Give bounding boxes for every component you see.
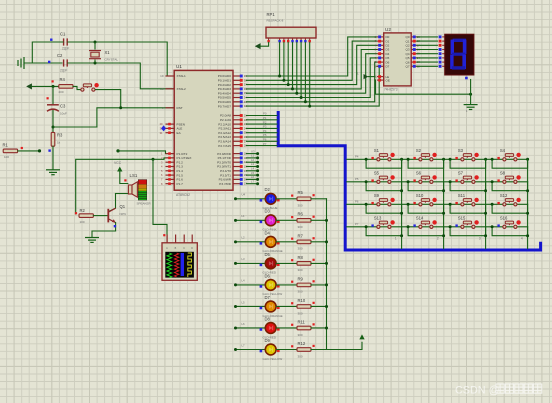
wire R5 to collector line <box>311 198 327 200</box>
pushbutton S10 <box>413 193 436 206</box>
svg-text:Q7: Q7 <box>405 65 409 69</box>
ground below display <box>464 105 478 110</box>
wire segment net 6 <box>417 61 437 63</box>
pushbutton S5 <box>371 171 394 184</box>
svg-text:S16: S16 <box>500 216 508 221</box>
wire net P0.3 <box>246 50 376 89</box>
resistor R3 <box>51 132 63 146</box>
wire display common down to ground <box>470 80 472 105</box>
wire net P2.4 <box>246 132 277 134</box>
microcontroller U1 AT89C52 <box>174 64 233 197</box>
svg-text:4: 4 <box>521 237 523 241</box>
svg-text:CRYSTAL: CRYSTAL <box>105 58 119 62</box>
pushbutton S16 <box>497 216 520 229</box>
svg-text:S9: S9 <box>374 193 380 198</box>
svg-text:D6: D6 <box>265 273 271 278</box>
wire net U4 to LED D2 <box>236 198 266 200</box>
svg-text:XTAL2: XTAL2 <box>177 87 187 91</box>
wire P1.1 net long run <box>76 158 174 214</box>
svg-text:C2: C2 <box>57 53 63 58</box>
latch U2 74HC573 <box>374 27 420 92</box>
svg-text:1: 1 <box>395 237 397 241</box>
svg-text:300: 300 <box>298 333 303 337</box>
node display common junction <box>469 93 472 96</box>
LED D4 GLD-ORANGE <box>260 230 283 253</box>
ground below R3 <box>46 170 60 175</box>
svg-text:L5: L5 <box>242 300 246 304</box>
pushbutton S7 <box>455 171 478 184</box>
capacitor C1 <box>50 32 69 51</box>
svg-text:SPEAKER: SPEAKER <box>137 202 152 206</box>
svg-text:RESPACK-8: RESPACK-8 <box>267 19 284 23</box>
wire link row2-col1 <box>366 182 402 191</box>
wire net U3 from P3.0 <box>246 153 257 155</box>
resistor R10 <box>291 298 315 315</box>
wire keypad row 4 from bus <box>347 226 528 228</box>
wire net L2 to LED D4 <box>236 241 266 243</box>
svg-text:10uF: 10uF <box>60 112 67 116</box>
svg-text:P6: P6 <box>355 200 359 204</box>
wire XTAL2 net: C2 to X1 to pin XTAL2 <box>68 63 174 89</box>
wire link row3-col3 <box>450 204 486 213</box>
wire net L3 to LED D5 <box>236 262 266 264</box>
resistor R9 <box>291 276 315 293</box>
wire OE to ground run <box>375 80 471 94</box>
svg-text:NPN: NPN <box>120 212 126 216</box>
svg-text:AT89C52: AT89C52 <box>176 193 190 197</box>
svg-text:U2: U2 <box>385 27 391 32</box>
U1 right pin stubs, numbers and labels <box>217 74 247 186</box>
svg-text:300: 300 <box>298 204 303 208</box>
wire keypad column 3 <box>485 159 487 248</box>
resistor pack RP1 RESPACK-8 <box>266 12 316 42</box>
oscilloscope graph <box>162 234 197 280</box>
wire link row4-col1 <box>366 227 402 236</box>
node C3/R3/RST-step junction <box>52 126 55 129</box>
transistor Q1 (NPN) <box>108 204 126 222</box>
svg-text:S10: S10 <box>416 193 424 198</box>
svg-text:L7: L7 <box>242 343 246 347</box>
wire keypad column 4 <box>527 159 529 248</box>
wire link row2-col4 <box>492 182 527 191</box>
wire net P0.2 <box>246 45 376 84</box>
node P0.6 junction <box>304 100 307 103</box>
wire net L2 from P3.2 <box>246 161 257 163</box>
wire link row4-col4 <box>492 227 527 236</box>
wire RP1 pull-up 1 <box>279 42 281 76</box>
node P0.5 junction <box>300 96 303 99</box>
wire net P2.2 <box>246 123 277 125</box>
wire link row4-col2 <box>408 227 444 236</box>
wire net P2.1 <box>246 119 277 121</box>
svg-text:R7: R7 <box>298 233 304 238</box>
node scope branch junction <box>152 158 155 161</box>
wire RP1 pull-up 8 <box>309 42 311 106</box>
LED D5 GLD-RED <box>260 252 280 275</box>
svg-text:100: 100 <box>4 155 9 159</box>
wire net P0.1 <box>246 41 376 80</box>
svg-text:300: 300 <box>298 354 303 358</box>
wire segment net 2 <box>417 44 437 46</box>
wire net L4 from P3.4 <box>246 170 257 172</box>
pushbutton S9 <box>371 193 394 206</box>
node reset/C3 junction <box>52 85 55 88</box>
U1 left pin stubs, numbers and labels <box>160 74 192 186</box>
svg-text:S4: S4 <box>500 148 506 153</box>
svg-text:D7: D7 <box>265 295 271 300</box>
svg-text:R1: R1 <box>3 143 9 148</box>
svg-text:RP1: RP1 <box>267 12 276 17</box>
svg-text:S12: S12 <box>500 193 508 198</box>
wire net P2.7 <box>246 145 277 147</box>
wire link row1-col4 <box>492 159 527 168</box>
node P0.2 junction <box>287 83 290 86</box>
LED D6 GLD-YELLOW <box>260 273 283 296</box>
svg-text:U1: U1 <box>176 64 182 69</box>
svg-text:R11: R11 <box>298 319 306 324</box>
svg-text:D4: D4 <box>265 230 271 235</box>
wire net L6 from P3.6 <box>246 178 257 180</box>
wire speaker bottom pin to Q1 collector <box>116 193 128 195</box>
svg-text:18: 18 <box>160 87 164 91</box>
wire net L5 from P3.5 <box>246 174 257 176</box>
svg-text:P4: P4 <box>355 155 359 159</box>
wire R3 to ground <box>52 146 54 169</box>
wire RP1 pull-up 2 <box>283 42 285 80</box>
svg-text:S15: S15 <box>458 216 466 221</box>
svg-text:R3: R3 <box>57 133 63 138</box>
svg-text:VCC: VCC <box>114 161 122 165</box>
wire RP1 pin1 to terminal <box>260 42 269 46</box>
wire link row1-col2 <box>408 159 444 168</box>
svg-text:2: 2 <box>437 237 439 241</box>
svg-text:D7: D7 <box>386 65 390 69</box>
wire LED D3 to resistor R6 <box>276 219 297 221</box>
7-segment display <box>445 34 474 75</box>
svg-text:D9: D9 <box>265 338 271 343</box>
pushbutton S4 <box>497 148 520 161</box>
resistor R7 <box>291 233 315 250</box>
crystal X1 <box>89 42 118 63</box>
wire RP1 pull-up 5 <box>296 42 298 93</box>
svg-text:P5: P5 <box>355 177 359 181</box>
wire net P0.0 <box>246 37 376 76</box>
wire net P2.6 <box>246 140 277 142</box>
LED cathode collector vertical wire <box>326 199 328 350</box>
wire net P0.6 <box>246 62 376 102</box>
svg-text:300: 300 <box>298 225 303 229</box>
wire net L5 to LED D7 <box>236 305 266 307</box>
svg-text:D8: D8 <box>265 316 271 321</box>
LED D9 GLD-YELLOW <box>260 338 283 361</box>
svg-text:D3: D3 <box>265 209 271 214</box>
wire segment net 1 <box>417 40 437 42</box>
wire keypad column 1 <box>401 159 403 248</box>
wire LED D9 to resistor R12 <box>276 349 297 351</box>
svg-text:22pF: 22pF <box>60 69 67 73</box>
svg-text:R12: R12 <box>298 341 306 346</box>
svg-text:GLD-YELLOW: GLD-YELLOW <box>263 357 283 361</box>
node P0.3 junction <box>291 87 294 90</box>
wire C2 line to ground <box>24 62 62 64</box>
svg-text:S6: S6 <box>416 171 422 176</box>
svg-text:D5: D5 <box>265 252 271 257</box>
svg-text:Q1: Q1 <box>120 204 126 209</box>
node P0.7 junction <box>308 105 311 108</box>
pushbutton <box>81 83 99 91</box>
svg-text:1k: 1k <box>57 141 61 145</box>
wire R7 to collector line <box>311 241 327 243</box>
wire branch to oscilloscope pin A <box>153 159 167 243</box>
wire link row4-col3 <box>450 227 486 236</box>
wire LED D5 to resistor R8 <box>276 262 297 264</box>
svg-text:S8: S8 <box>500 171 506 176</box>
resistor R11 <box>291 319 315 336</box>
svg-text:74HC573: 74HC573 <box>384 88 398 92</box>
wire net P0.7 <box>246 66 379 106</box>
wire Q1 emitter to ground <box>92 223 116 237</box>
node P0.0 junction <box>278 75 281 78</box>
resistor R12 <box>291 341 315 358</box>
svg-text:3: 3 <box>479 237 481 241</box>
wire net L7 to LED D9 <box>236 349 266 351</box>
svg-text:XTAL1: XTAL1 <box>177 74 187 78</box>
wire link row3-col4 <box>492 204 527 213</box>
wire RP1 pull-up 3 <box>287 42 289 84</box>
wire terminal to R4 <box>32 85 59 87</box>
svg-text:S3: S3 <box>458 148 464 153</box>
wire R11 to collector line <box>311 327 327 329</box>
svg-text:P3.7/RD: P3.7/RD <box>219 182 231 186</box>
wire LED D7 to resistor R10 <box>276 305 297 307</box>
wire segment net 4 <box>417 53 437 55</box>
svg-text:300: 300 <box>298 290 303 294</box>
pushbutton S6 <box>413 171 436 184</box>
wire net L1 from P3.1 <box>246 157 257 159</box>
speaker LS1 <box>128 173 151 205</box>
wire from R1 (dangling) <box>18 150 40 152</box>
wire R9 to collector line <box>311 284 327 286</box>
svg-text:P7: P7 <box>263 142 267 146</box>
resistor R8 <box>291 255 315 272</box>
wire RST net into pin 9 <box>97 108 174 127</box>
LED D8 GLD-RED <box>260 316 280 339</box>
bus P2 vertical segment <box>278 113 540 251</box>
wire link row3-col2 <box>408 204 444 213</box>
wire segment net 7 <box>417 65 437 67</box>
svg-text:P2.7/A15: P2.7/A15 <box>218 144 231 148</box>
ground terminal (left of C2) <box>18 57 24 69</box>
LED D2 GLD-BLUE <box>260 187 280 210</box>
svg-text:R10: R10 <box>298 298 306 303</box>
pushbutton S14 <box>413 216 436 229</box>
svg-text:RST: RST <box>177 106 183 110</box>
wire keypad row 3 from bus <box>347 203 528 205</box>
node C2-X1 junction <box>94 62 97 65</box>
resistor R5 <box>291 190 315 207</box>
wire collector line to power arrow <box>327 342 363 349</box>
svg-text:C3: C3 <box>60 104 66 109</box>
wire R8 to collector line <box>311 262 327 264</box>
wire button to RST vertical <box>96 90 121 108</box>
resistor R6 <box>291 212 315 229</box>
wire RP1 pull-up 4 <box>292 42 294 89</box>
pushbutton S1 <box>371 148 394 161</box>
wire RP1 pull-up 7 <box>304 42 306 101</box>
wire link row2-col2 <box>408 182 444 191</box>
wire net L4 to LED D6 <box>236 284 266 286</box>
wire link row1-col3 <box>450 159 486 168</box>
svg-text:100: 100 <box>80 220 85 224</box>
wire link row2-col3 <box>450 182 486 191</box>
svg-text:C1: C1 <box>60 32 66 37</box>
wire C3 to R3 <box>52 111 54 133</box>
wire RP1 pull-up 6 <box>300 42 302 97</box>
svg-text:LS1: LS1 <box>130 173 138 178</box>
svg-text:L3: L3 <box>242 257 246 261</box>
svg-text:P0.7/AD7: P0.7/AD7 <box>218 104 232 108</box>
power terminal arrow (LED return) <box>360 335 364 339</box>
svg-text:19: 19 <box>160 74 164 78</box>
svg-text:R9: R9 <box>298 276 304 281</box>
wire C3 top connection <box>52 86 54 103</box>
ground below Q1 <box>85 238 99 243</box>
svg-text:300: 300 <box>298 268 303 272</box>
svg-text:S5: S5 <box>374 171 380 176</box>
node P0.1 junction <box>282 79 285 82</box>
capacitor C3 (electrolytic) <box>47 97 68 115</box>
wire segment net 5 <box>417 57 437 59</box>
wire link row3-col1 <box>366 204 402 213</box>
svg-text:R6: R6 <box>298 212 304 217</box>
wire LED D8 to resistor R11 <box>276 327 297 329</box>
wire keypad row 1 from bus <box>347 158 528 160</box>
resistor R2 <box>75 208 94 224</box>
svg-text:R5: R5 <box>298 190 304 195</box>
pushbutton S11 <box>455 193 478 206</box>
wire R6 to collector line <box>311 219 327 221</box>
svg-text:S7: S7 <box>458 171 464 176</box>
LED D3 GLD-PINK <box>260 209 280 232</box>
svg-text:S13: S13 <box>374 216 382 221</box>
pushbutton S12 <box>497 193 520 206</box>
input terminal arrow (reset row) <box>27 84 32 89</box>
svg-text:R8: R8 <box>298 255 304 260</box>
wire P1.0 net to pin <box>116 149 119 152</box>
wire net P0.4 <box>246 54 376 93</box>
svg-text:D: D <box>191 247 193 250</box>
svg-text:L7: L7 <box>251 179 255 183</box>
pushbutton S2 <box>413 148 436 161</box>
svg-text:L1: L1 <box>242 214 246 218</box>
wire segment net 0 <box>417 36 437 38</box>
svg-text:CSDN @: CSDN @ <box>455 385 500 397</box>
svg-text:C: C <box>183 247 185 250</box>
svg-text:300: 300 <box>298 247 303 251</box>
wire LED D2 to resistor R5 <box>276 198 297 200</box>
watermark text <box>455 384 542 397</box>
wire link row1-col1 <box>366 159 402 168</box>
svg-text:200: 200 <box>59 90 64 94</box>
svg-text:22pF: 22pF <box>62 47 69 51</box>
svg-text:R4: R4 <box>60 77 66 82</box>
wire LED D4 to resistor R7 <box>276 241 297 243</box>
svg-text:S11: S11 <box>458 193 466 198</box>
wire R10 to collector line <box>311 305 327 307</box>
svg-text:OE: OE <box>386 78 390 82</box>
svg-text:X1: X1 <box>105 50 111 55</box>
node P0.4 junction <box>295 92 298 95</box>
wire R12 to collector line <box>311 349 327 351</box>
svg-text:D2: D2 <box>265 187 271 192</box>
pushbutton S13 <box>371 216 394 229</box>
wire R2 to Q1 base <box>93 215 107 217</box>
pushbutton S15 <box>455 216 478 229</box>
wire keypad column 2 <box>443 159 445 248</box>
svg-text:S14: S14 <box>416 216 424 221</box>
svg-text:U4: U4 <box>242 193 246 197</box>
svg-text:300: 300 <box>298 311 303 315</box>
wire net P2.3 <box>246 127 277 129</box>
svg-text:L2: L2 <box>242 236 246 240</box>
wire XTAL1 net: C1 to X1 to pin XTAL1 <box>32 42 63 63</box>
LED D7 GLD-ORANGE <box>260 295 283 318</box>
resistor R4 <box>59 77 74 94</box>
wire net L1 to LED D3 <box>236 219 266 221</box>
pushbutton S3 <box>455 148 478 161</box>
wire net P2.5 <box>246 136 277 138</box>
wire net L3 from P3.3 <box>246 166 257 168</box>
pushbutton S8 <box>497 171 520 184</box>
svg-text:L6: L6 <box>242 322 246 326</box>
wire net L7 from P3.7 <box>246 183 257 185</box>
wire LED D6 to resistor R9 <box>276 284 297 286</box>
svg-text:P1.7: P1.7 <box>177 182 184 186</box>
wire net P2.0 <box>246 115 277 117</box>
wire net P0.5 <box>246 58 376 98</box>
svg-text:R2: R2 <box>80 208 86 213</box>
wire keypad row 2 from bus <box>347 181 528 183</box>
svg-text:P7: P7 <box>355 222 359 226</box>
svg-text:L4: L4 <box>242 279 246 283</box>
node C1-X1 junction <box>94 41 97 44</box>
capacitor C2 <box>48 53 67 73</box>
svg-text:S1: S1 <box>374 148 380 153</box>
svg-text:S2: S2 <box>416 148 422 153</box>
wire net L6 to LED D8 <box>236 327 266 329</box>
wire R4 to reset button <box>73 86 80 89</box>
node RST junction <box>119 106 122 109</box>
wire segment net 3 <box>417 49 437 51</box>
power terminal arrow for RP1 pin1 <box>256 44 261 49</box>
voltage probe marker near PSEN <box>161 125 166 131</box>
resistor R1 <box>3 143 23 159</box>
